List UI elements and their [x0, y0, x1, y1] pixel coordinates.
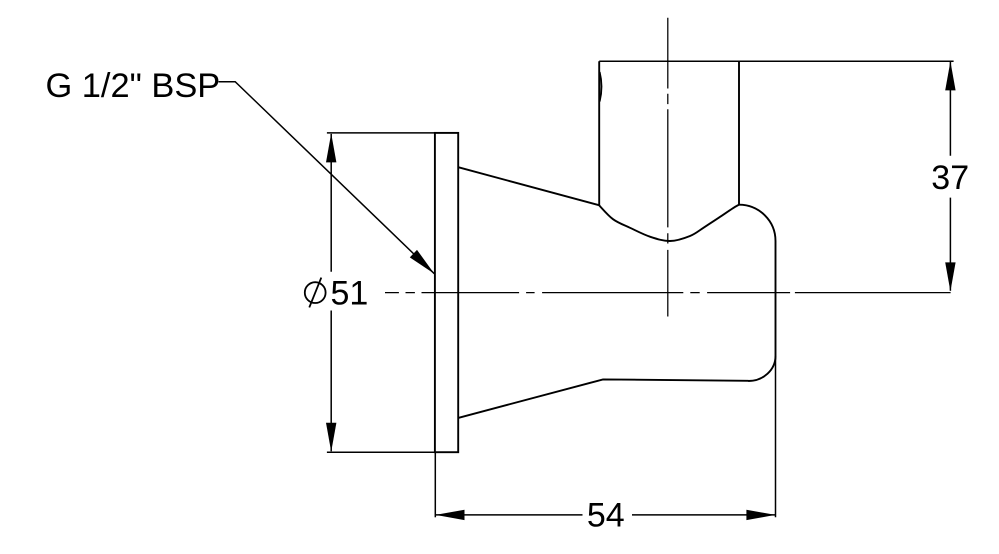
- svg-text:51: 51: [331, 275, 369, 313]
- svg-text:54: 54: [587, 496, 625, 534]
- svg-text:G 1/2" BSP: G 1/2" BSP: [46, 67, 221, 105]
- svg-text:37: 37: [931, 159, 969, 197]
